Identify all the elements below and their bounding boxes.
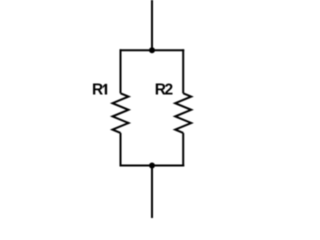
svg-text:R: R [92,81,103,98]
wire R1 upper lead [120,49,122,93]
wire bottom lead [151,166,153,219]
wire R1 lower lead [120,133,122,167]
label R1 [92,81,107,98]
resistor R1 [113,93,129,133]
svg-text:R2: R2 [155,81,173,98]
wire R2 lower lead [182,133,184,167]
junction bottom node [149,163,155,169]
wire bottom horizontal bus [120,165,185,167]
wire top lead [151,0,153,50]
junction top node [149,47,155,53]
resistor R2 [175,93,191,133]
wire top horizontal bus [120,49,185,51]
wire R2 upper lead [182,49,184,93]
